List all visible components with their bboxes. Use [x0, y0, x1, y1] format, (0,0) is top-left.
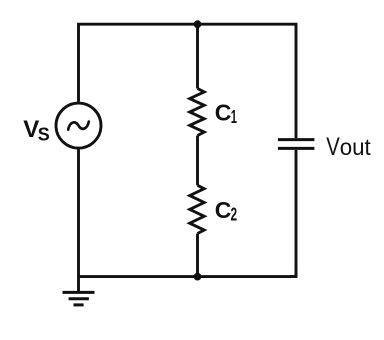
wire: middle branch top — [196, 24, 199, 88]
wire: left vertical below source down to ground — [77, 149, 80, 291]
svg-text:2: 2 — [231, 204, 238, 224]
ground — [63, 292, 95, 305]
voltage source VS (AC source circle) — [56, 103, 101, 148]
junction node (bottom) — [194, 273, 202, 281]
wire: left vertical (top) + top horizontal + right vertical down to capacitor — [79, 24, 297, 138]
capacitor (output), top plate — [278, 138, 315, 141]
wire: bottom-right corner joint — [290, 270, 296, 277]
svg-text:out: out — [340, 134, 372, 160]
resistor-style element C1 (zigzag) — [190, 89, 205, 136]
svg-text:C: C — [215, 197, 232, 223]
resistor-style element C2 (zigzag) — [190, 185, 205, 233]
wire: middle branch between C1 and C2 — [196, 136, 199, 186]
svg-text:1: 1 — [231, 107, 237, 127]
svg-text:S: S — [38, 124, 50, 144]
wire: middle branch bottom — [196, 234, 199, 277]
wire: bottom horizontal — [79, 275, 297, 278]
junction node (top) — [194, 20, 202, 28]
wire: right vertical below capacitor — [295, 150, 298, 277]
svg-text:V: V — [326, 133, 340, 161]
capacitor (output), bottom plate — [278, 147, 315, 150]
sine symbol inside source — [68, 122, 89, 130]
svg-text:C: C — [215, 99, 232, 125]
